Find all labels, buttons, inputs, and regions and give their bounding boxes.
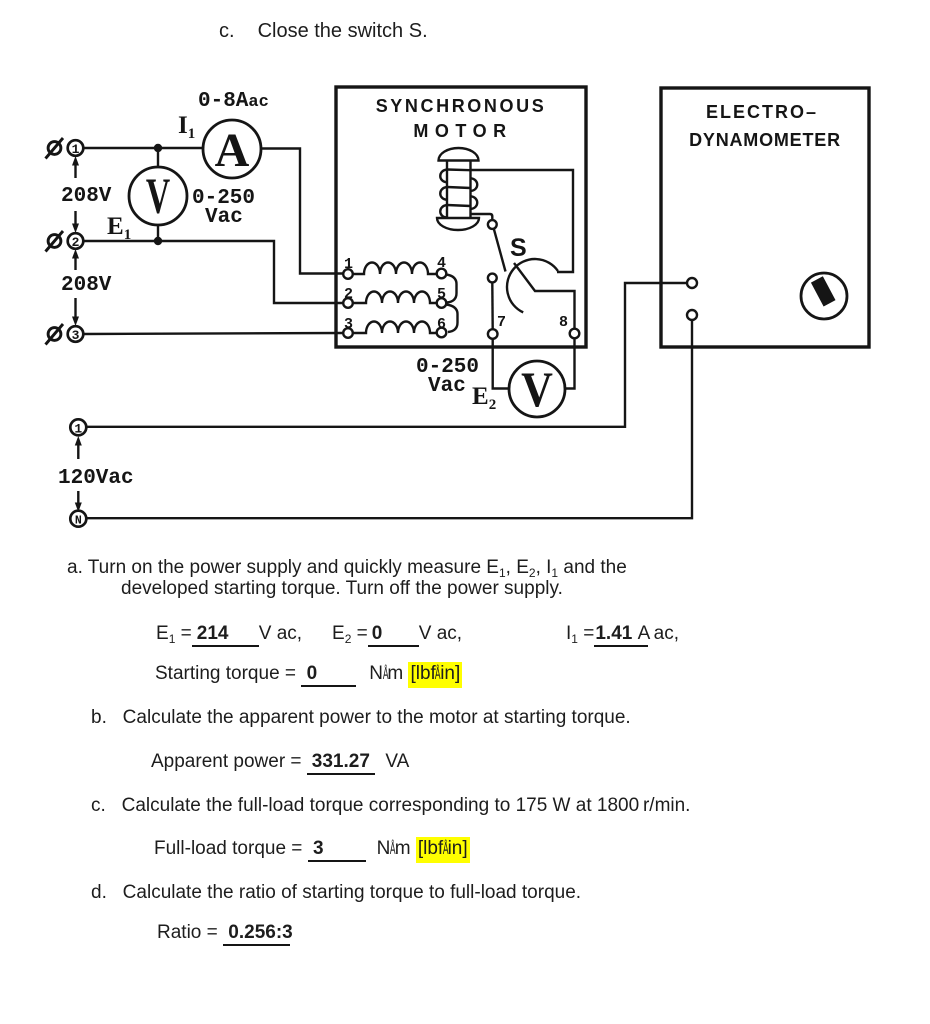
arrow 208V between phase 2 and 3 bbox=[72, 249, 79, 326]
svg-text:0-8Aac: 0-8Aac bbox=[198, 90, 269, 113]
voltmeter E2 bbox=[509, 361, 565, 418]
dynamometer knob bbox=[801, 273, 847, 319]
stator coil 3-6 bbox=[353, 322, 438, 334]
value I1 bbox=[566, 623, 679, 647]
svg-text:Vac: Vac bbox=[428, 375, 466, 398]
wire phase1 to ammeter bbox=[83, 147, 203, 149]
switch S upper contact bbox=[488, 220, 497, 229]
rheostat wiper to terminal 8 bbox=[514, 263, 575, 329]
svg-text:5: 5 bbox=[437, 286, 446, 303]
supply terminal 1 (120V) bbox=[70, 419, 86, 436]
switch S blade (open) bbox=[494, 230, 506, 272]
svg-text:E1: E1 bbox=[107, 213, 131, 243]
junction dot voltmeter E1 top bbox=[154, 144, 162, 152]
value full-load torque bbox=[154, 838, 470, 862]
svg-text:S: S bbox=[510, 234, 527, 262]
svg-text:2: 2 bbox=[72, 235, 80, 250]
value apparent power bbox=[151, 751, 409, 775]
ammeter I1 bbox=[203, 120, 261, 178]
motor terminal 6 bbox=[437, 316, 447, 337]
svg-text:ELECTRO–: ELECTRO– bbox=[706, 102, 818, 122]
question a line 2 bbox=[121, 578, 563, 600]
dynamometer lower terminal bbox=[687, 310, 697, 320]
value starting torque bbox=[155, 663, 462, 687]
motor terminal 8 bbox=[559, 314, 579, 338]
wire junction to voltmeter E1 top bbox=[157, 148, 159, 167]
motor terminal 2 bbox=[343, 286, 353, 308]
wire field winding bottom to switch contact bbox=[471, 214, 493, 220]
svg-text:2: 2 bbox=[344, 286, 353, 303]
stator coil 2-5 bbox=[353, 292, 438, 304]
svg-text:7: 7 bbox=[497, 314, 506, 331]
svg-text:SYNCHRONOUS: SYNCHRONOUS bbox=[376, 96, 547, 116]
wire dynamometer upper terminal to supply terminal 1 bbox=[86, 283, 687, 427]
svg-text:Vac: Vac bbox=[205, 206, 243, 229]
question d bbox=[91, 882, 581, 904]
question a line 1 bbox=[67, 557, 627, 579]
label 0-250 Vac for E2 meter bbox=[416, 356, 479, 398]
stator coil 1-4 bbox=[353, 263, 438, 275]
phase symbol Ø1 bbox=[46, 138, 64, 159]
svg-text:V: V bbox=[146, 169, 170, 224]
motor terminal 7 bbox=[488, 314, 506, 339]
motor terminal 4 bbox=[437, 255, 447, 278]
label 0-250 Vac for E1 meter bbox=[192, 187, 255, 229]
header instruction text bbox=[219, 20, 428, 43]
dynamometer upper terminal bbox=[687, 278, 697, 288]
svg-text:I1: I1 bbox=[178, 112, 195, 142]
svg-text:3: 3 bbox=[344, 316, 353, 333]
synchronous motor box bbox=[336, 87, 586, 347]
value E2 bbox=[332, 623, 462, 647]
wire star link 4-5 bbox=[446, 275, 457, 303]
wire field winding top to rheostat bbox=[471, 170, 574, 272]
supply terminal N bbox=[70, 511, 86, 528]
phase symbol Ø3 bbox=[46, 324, 64, 345]
svg-text:DYNAMOMETER: DYNAMOMETER bbox=[689, 130, 841, 150]
svg-text:208V: 208V bbox=[61, 274, 112, 297]
switch S lower contact bbox=[488, 274, 497, 283]
arrow 208V between phase 1 and 2 bbox=[72, 156, 79, 233]
value ratio bbox=[157, 922, 290, 946]
voltmeter E1 bbox=[129, 167, 187, 225]
electro-dynamometer box bbox=[661, 88, 869, 347]
svg-text:120Vac: 120Vac bbox=[58, 467, 134, 490]
motor terminal 1 bbox=[343, 256, 353, 279]
svg-text:8: 8 bbox=[559, 314, 568, 331]
junction dot voltmeter E1 bottom bbox=[154, 237, 162, 245]
wire star link 5-6 bbox=[446, 305, 458, 333]
wire dynamometer lower terminal to neutral bbox=[86, 320, 692, 518]
phase symbol Ø2 bbox=[46, 231, 64, 252]
rotor field winding bbox=[437, 148, 479, 230]
terminal 3 of power supply bbox=[68, 326, 84, 343]
motor terminal 3 bbox=[343, 316, 353, 338]
svg-text:A: A bbox=[215, 124, 250, 177]
terminal 2 of power supply bbox=[68, 233, 84, 250]
rheostat arc bbox=[507, 259, 558, 312]
terminal 1 of power supply bbox=[68, 140, 84, 157]
value E1 bbox=[156, 623, 302, 647]
question b bbox=[91, 707, 631, 729]
wire ammeter to motor terminal 1 bbox=[261, 149, 343, 274]
wire terminal 8 to voltmeter E2 bbox=[565, 338, 575, 388]
wire switch to terminal 7 bbox=[491, 283, 494, 330]
svg-text:208V: 208V bbox=[61, 185, 112, 208]
wire phase2 to motor terminal 2 bbox=[83, 241, 343, 303]
question c bbox=[91, 795, 690, 817]
wire phase3 to motor terminal 3 bbox=[83, 333, 343, 334]
svg-text:1: 1 bbox=[72, 142, 80, 157]
svg-text:4: 4 bbox=[437, 255, 446, 272]
svg-text:N: N bbox=[75, 515, 82, 528]
svg-text:1: 1 bbox=[74, 422, 82, 437]
svg-text:MOTOR: MOTOR bbox=[413, 121, 512, 141]
svg-text:3: 3 bbox=[72, 328, 80, 343]
wire terminal 7 to voltmeter E2 bbox=[493, 339, 509, 389]
svg-text:V: V bbox=[521, 362, 553, 417]
motor terminal 5 bbox=[437, 286, 447, 308]
svg-text:1: 1 bbox=[344, 256, 353, 273]
wire voltmeter E1 bottom to junction bbox=[157, 225, 159, 241]
svg-text:6: 6 bbox=[437, 316, 446, 333]
arrow 120Vac bbox=[75, 436, 82, 512]
